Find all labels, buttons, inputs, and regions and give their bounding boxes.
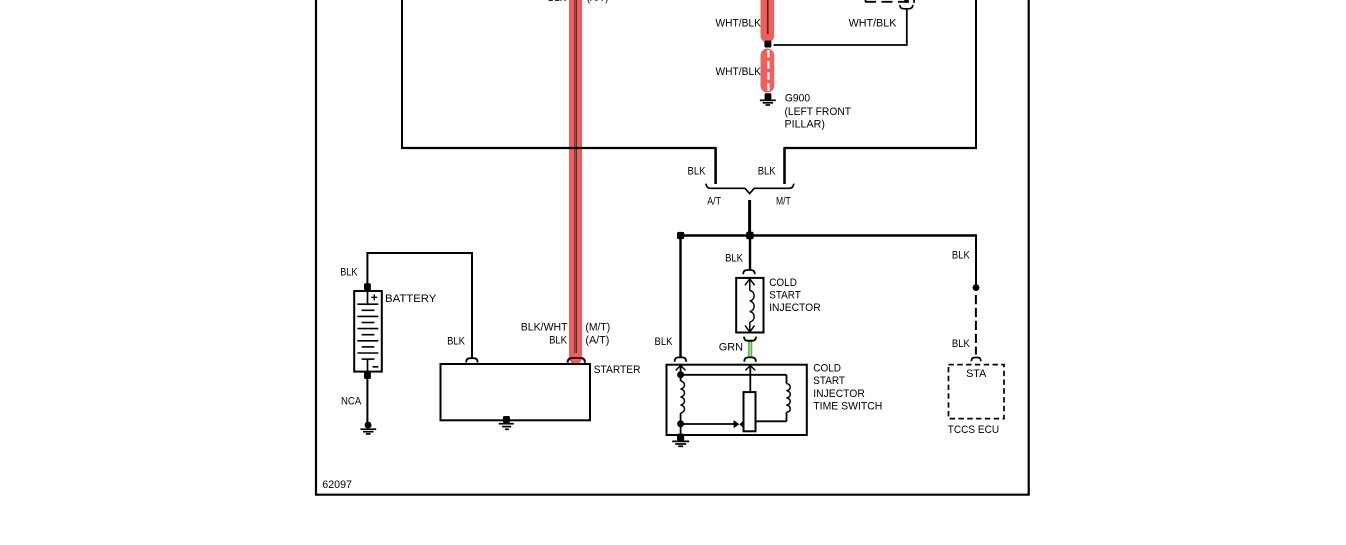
junction dot center bus xyxy=(746,232,753,240)
connector arc at time switch center terminal xyxy=(744,357,756,361)
svg-text:BLK: BLK xyxy=(548,0,567,4)
svg-text:(LEFT FRONT: (LEFT FRONT xyxy=(785,106,852,118)
svg-text:TIME SWITCH: TIME SWITCH xyxy=(813,400,882,412)
connector arc at time switch left terminal xyxy=(675,357,687,361)
svg-text:A/T: A/T xyxy=(707,195,721,207)
svg-text:COLD: COLD xyxy=(813,363,841,375)
svg-text:INJECTOR: INJECTOR xyxy=(769,302,821,314)
ground time switch xyxy=(672,441,689,446)
svg-text:GRN: GRN xyxy=(719,342,743,354)
connector arc at starter red terminal xyxy=(568,358,585,363)
svg-text:STA: STA xyxy=(966,368,987,380)
connection dot battery ground xyxy=(365,422,372,429)
ground G900 xyxy=(760,100,776,105)
bus wire horizontal xyxy=(681,234,977,236)
wire BLK center branch down to injector xyxy=(749,236,751,270)
connection dot at G900 xyxy=(765,93,772,100)
battery top wire BLK xyxy=(367,253,472,357)
connection dot battery positive xyxy=(364,283,371,290)
svg-text:+: + xyxy=(371,290,378,304)
svg-text:BLK: BLK xyxy=(952,250,970,262)
cold start injector box xyxy=(736,278,763,333)
svg-text:COLD: COLD xyxy=(769,277,797,289)
svg-text:M/T: M/T xyxy=(776,195,791,207)
junction dot right branch xyxy=(973,284,980,291)
wire highlighted WHT/BLK lower capsule to G900 xyxy=(761,49,775,93)
svg-text:STARTER: STARTER xyxy=(594,364,641,376)
connector arc at TCCS ECU xyxy=(971,358,981,362)
stub wire BLK M/T from block xyxy=(783,148,786,184)
connection dot battery negative xyxy=(364,372,371,379)
svg-text:PILLAR): PILLAR) xyxy=(785,119,825,131)
stub wire BLK A/T from block xyxy=(714,148,717,184)
svg-text:NCA: NCA xyxy=(341,395,362,407)
wire BLK left branch down to time switch xyxy=(679,236,681,358)
svg-text:INJECTOR: INJECTOR xyxy=(813,388,865,400)
connector arc at injector bottom xyxy=(744,337,756,341)
wire highlighted WHT/BLK upper capsule xyxy=(761,0,775,43)
svg-text:BLK: BLK xyxy=(655,336,673,348)
cold start injector time switch box xyxy=(667,365,807,435)
brace joining A/T and M/T wires xyxy=(706,184,794,194)
wire from brace to bus junction xyxy=(748,200,751,236)
svg-text:(M/T): (M/T) xyxy=(585,321,610,333)
wire BLK right branch xyxy=(975,234,977,287)
svg-text:62097: 62097 xyxy=(322,479,352,491)
connector arc at starter left terminal xyxy=(466,358,478,362)
ground starter xyxy=(499,424,514,430)
battery B1 xyxy=(354,290,382,371)
time switch internals xyxy=(676,366,791,438)
svg-text:WHT/BLK: WHT/BLK xyxy=(716,17,762,29)
junction dot left bus xyxy=(677,232,684,239)
svg-text:BLK: BLK xyxy=(758,166,776,178)
svg-text:WHT/BLK: WHT/BLK xyxy=(716,66,762,78)
wire BLK dashed to TCCS ECU xyxy=(975,295,977,355)
svg-text:(A/T): (A/T) xyxy=(585,335,609,347)
wire NCA battery to ground xyxy=(366,376,368,425)
svg-text:BLK: BLK xyxy=(549,335,567,347)
svg-text:START: START xyxy=(813,375,845,387)
svg-text:BLK/WHT: BLK/WHT xyxy=(521,321,568,333)
svg-text:BLK: BLK xyxy=(340,266,358,278)
svg-text:BLK: BLK xyxy=(447,335,465,347)
svg-text:BLK: BLK xyxy=(952,338,970,350)
wire GRN injector to time switch (green) xyxy=(748,340,752,358)
svg-text:TCCS ECU: TCCS ECU xyxy=(948,424,999,436)
outer frame border xyxy=(316,0,1029,495)
svg-text:BLK: BLK xyxy=(688,166,706,178)
connector arc below dashed box xyxy=(900,5,913,9)
svg-text:(A/T): (A/T) xyxy=(587,0,608,4)
switch arrow tip inside dashed box xyxy=(904,0,910,3)
svg-text:G900: G900 xyxy=(785,93,810,105)
junction dot time switch top xyxy=(677,371,684,378)
TCCS ECU dashed box xyxy=(949,365,1005,419)
svg-text:BATTERY: BATTERY xyxy=(385,293,437,305)
upper component block rectangle (cut off at top) xyxy=(401,0,977,149)
connection dot time switch ground xyxy=(677,434,684,441)
svg-text:BLK: BLK xyxy=(725,253,743,265)
injector internal element with arrows and coil xyxy=(745,279,755,332)
svg-text:START: START xyxy=(769,290,801,302)
junction dot time switch bottom xyxy=(677,420,684,427)
dashed component box top right (cut off) xyxy=(865,0,915,3)
ground battery xyxy=(360,429,376,434)
wire highlighted BLK/WHT main starter feed (red band) xyxy=(569,0,582,365)
wire WHT/BLK from dashed box down and left to junction xyxy=(774,10,907,45)
starter box xyxy=(441,364,591,420)
junction dot WHT/BLK node xyxy=(764,41,771,48)
svg-text:WHT/BLK: WHT/BLK xyxy=(849,17,897,29)
connection dot starter ground xyxy=(503,416,510,423)
connector arc at injector top xyxy=(743,270,755,274)
